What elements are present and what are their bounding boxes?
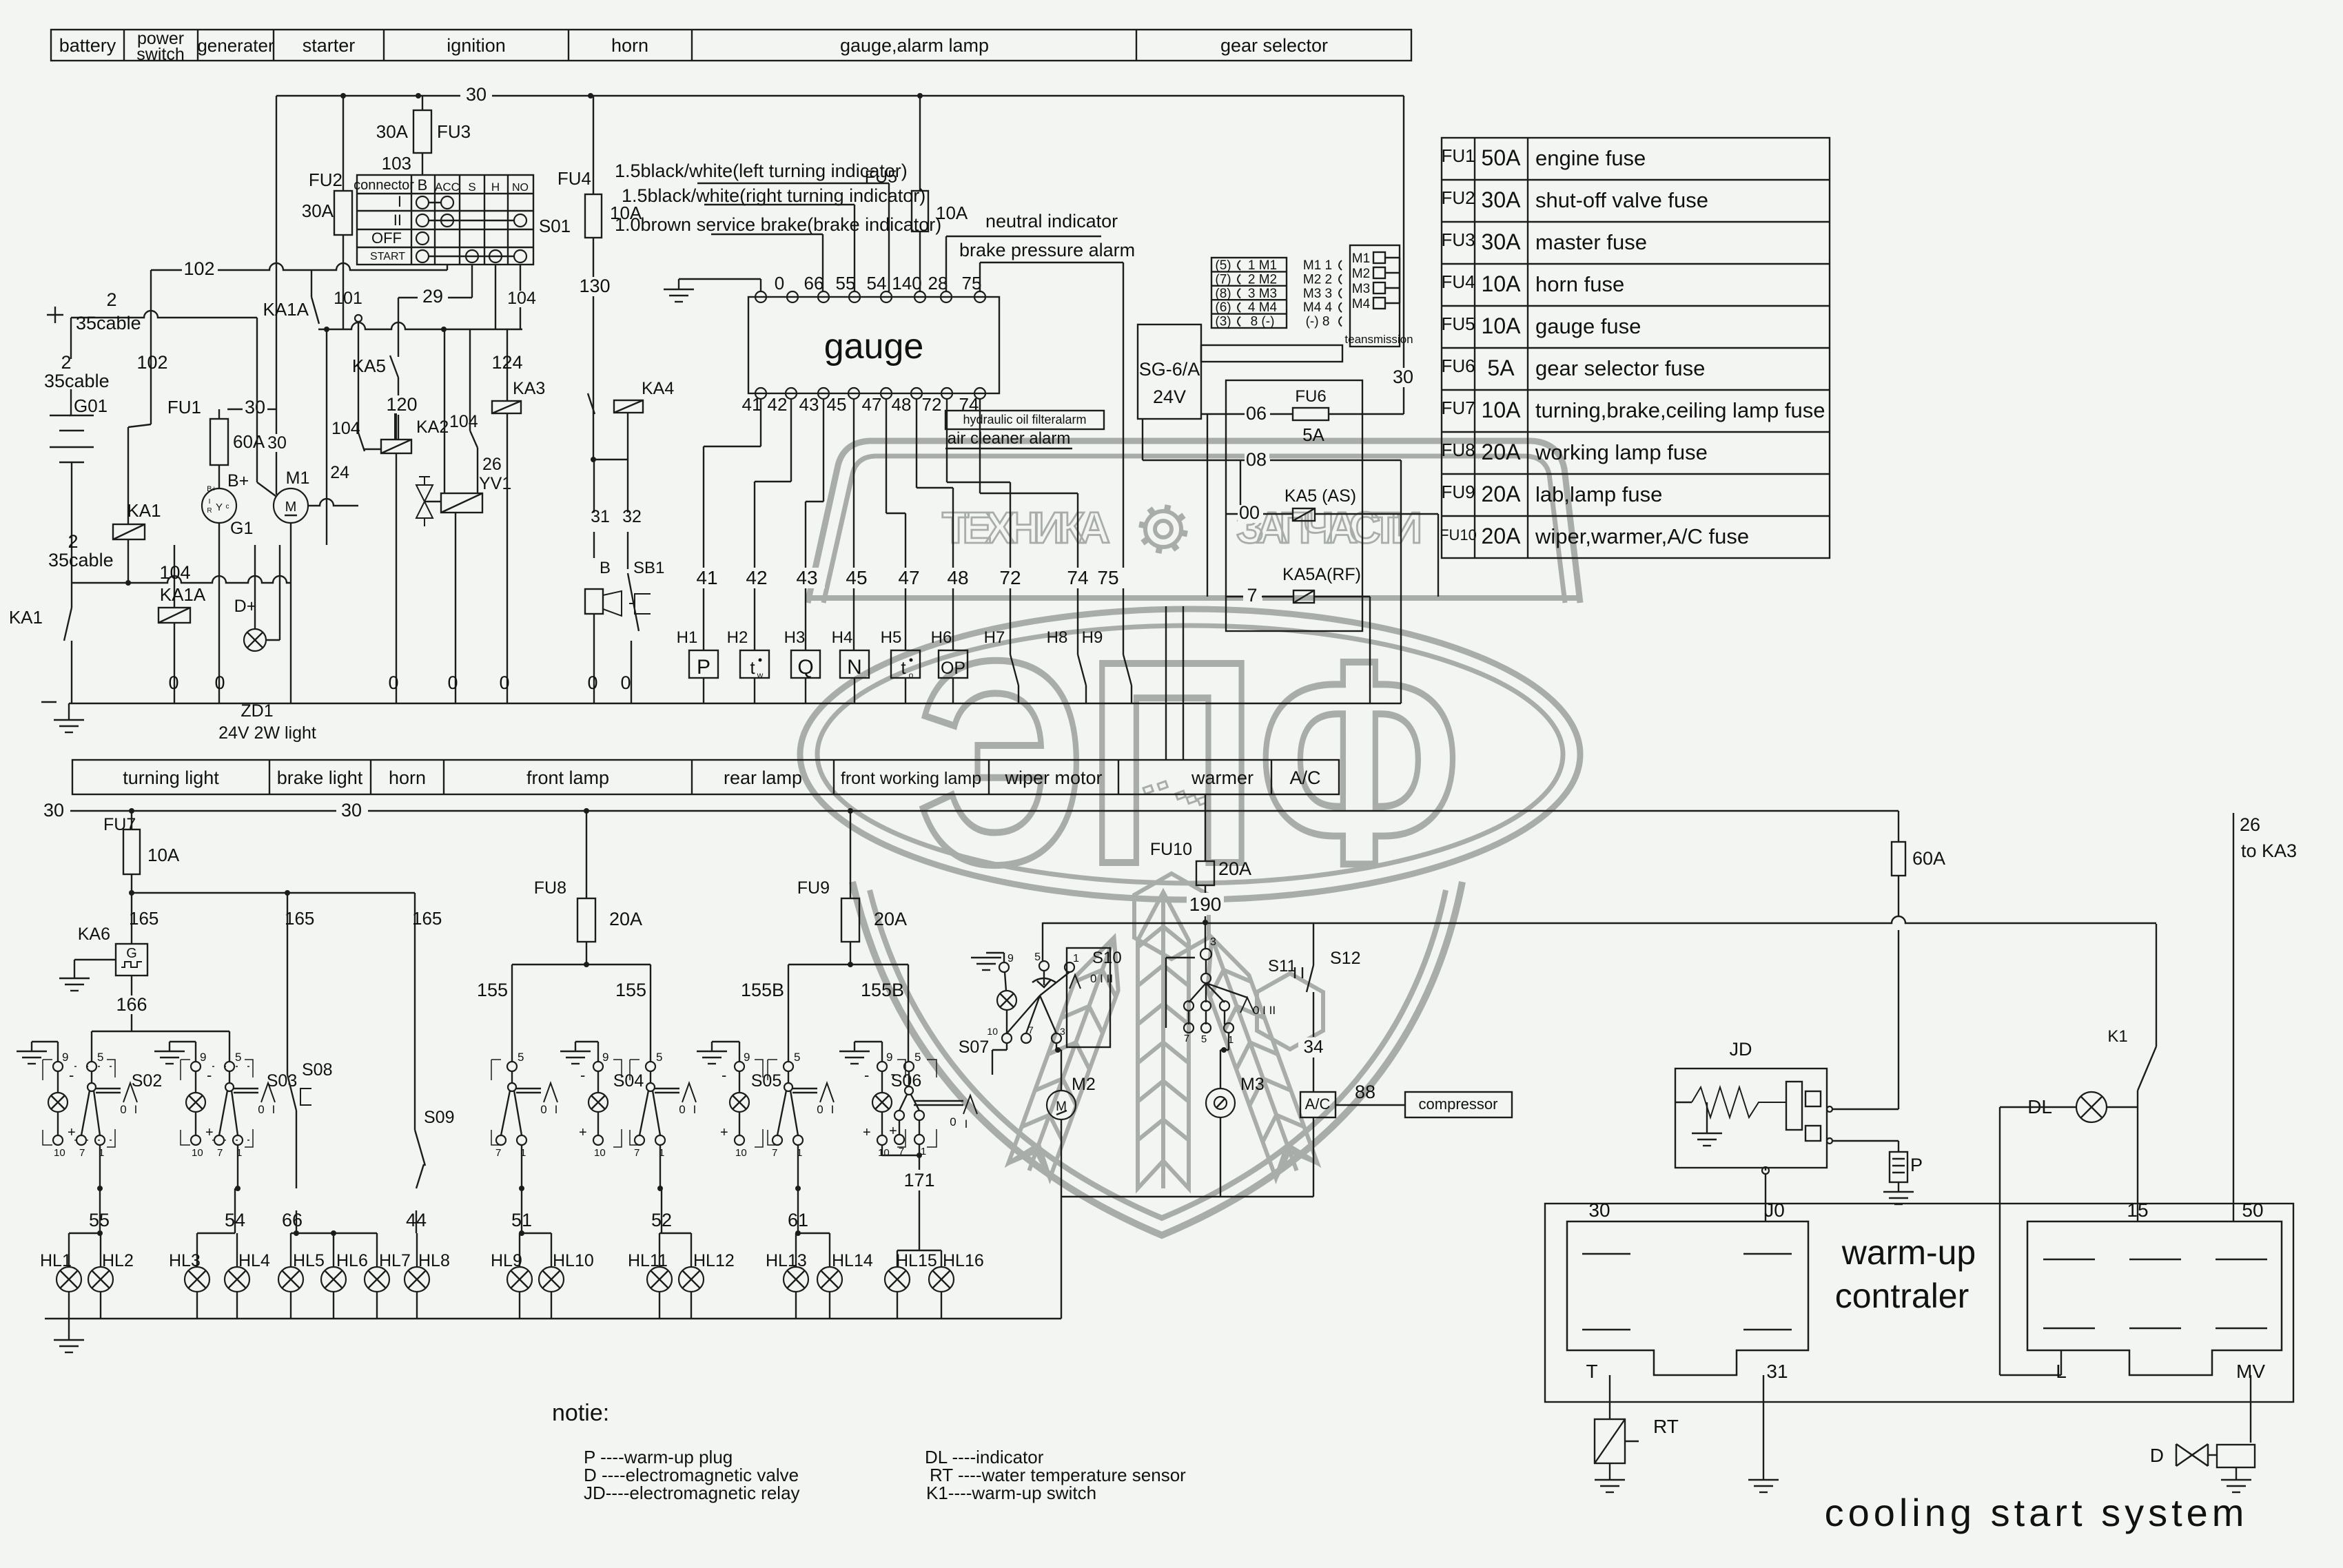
- svg-text:10: 10: [987, 1026, 998, 1037]
- svg-text:K1: K1: [2107, 1027, 2127, 1046]
- svg-text:54: 54: [867, 273, 887, 293]
- svg-text:KA4: KA4: [642, 379, 674, 398]
- svg-text:generater: generater: [197, 35, 274, 56]
- svg-text:10: 10: [192, 1147, 203, 1159]
- svg-text:neutral indicator: neutral indicator: [985, 211, 1118, 231]
- svg-text:8 (-): 8 (-): [1251, 315, 1275, 329]
- svg-text:D: D: [2150, 1445, 2164, 1466]
- svg-text:G1: G1: [230, 519, 253, 538]
- svg-text:FU10: FU10: [1440, 526, 1477, 544]
- svg-text:I: I: [831, 1103, 835, 1116]
- svg-text:+: +: [720, 1125, 728, 1140]
- svg-text:9: 9: [886, 1051, 892, 1064]
- svg-text:M2 2: M2 2: [1303, 272, 1332, 287]
- svg-text:L: L: [2056, 1361, 2067, 1382]
- svg-text:FU6: FU6: [1441, 355, 1475, 376]
- svg-text:20A: 20A: [1482, 524, 1522, 548]
- svg-text:S05: S05: [751, 1071, 781, 1091]
- svg-text:FU3: FU3: [437, 121, 471, 142]
- svg-text:31: 31: [1766, 1361, 1788, 1382]
- svg-text:front working lamp: front working lamp: [841, 769, 981, 788]
- svg-text:7: 7: [217, 1147, 223, 1159]
- svg-text:ZD1: ZD1: [241, 701, 273, 721]
- svg-text:JD: JD: [1730, 1039, 1752, 1060]
- svg-text:10: 10: [878, 1147, 890, 1159]
- svg-text:31: 31: [591, 507, 610, 526]
- svg-text:20A: 20A: [1482, 482, 1522, 506]
- svg-text:G: G: [126, 946, 137, 961]
- svg-text:H1: H1: [677, 628, 698, 647]
- svg-text:HL10: HL10: [553, 1251, 594, 1270]
- svg-text:104: 104: [449, 412, 478, 431]
- svg-text:R: R: [207, 507, 212, 515]
- svg-text:JD----electromagnetic relay: JD----electromagnetic relay: [584, 1483, 800, 1503]
- svg-text:30A: 30A: [376, 121, 409, 142]
- svg-text:0: 0: [817, 1103, 823, 1116]
- svg-text:15: 15: [2127, 1199, 2148, 1221]
- svg-text:5: 5: [235, 1051, 241, 1064]
- svg-text:HL7: HL7: [379, 1251, 411, 1270]
- svg-text:H3: H3: [784, 628, 806, 647]
- svg-text:gauge fuse: gauge fuse: [1535, 314, 1641, 338]
- svg-text:B: B: [600, 559, 611, 577]
- svg-text:hydraulic oil filteralarm: hydraulic oil filteralarm: [963, 413, 1086, 426]
- svg-text:wiper motor: wiper motor: [1004, 767, 1102, 788]
- svg-text:lab,lamp fuse: lab,lamp fuse: [1535, 482, 1662, 506]
- svg-text:120: 120: [386, 394, 417, 415]
- svg-text:06: 06: [1246, 403, 1267, 424]
- svg-text:to KA3: to KA3: [2241, 840, 2297, 861]
- svg-text:contraler: contraler: [1835, 1277, 1969, 1315]
- svg-text:M1: M1: [1352, 251, 1370, 266]
- svg-text:M3 3: M3 3: [1303, 287, 1332, 301]
- svg-text:connector: connector: [354, 178, 414, 193]
- svg-text:60A: 60A: [233, 431, 265, 452]
- svg-text:0: 0: [214, 672, 225, 693]
- svg-text:41: 41: [696, 567, 717, 588]
- svg-text:H6: H6: [931, 628, 952, 647]
- svg-text:I: I: [209, 498, 211, 506]
- svg-text:124: 124: [491, 352, 522, 373]
- svg-text:M4 4: M4 4: [1303, 300, 1333, 315]
- svg-text:H4: H4: [832, 628, 853, 647]
- svg-text:165: 165: [285, 908, 314, 929]
- svg-text:FU8: FU8: [1441, 440, 1475, 460]
- svg-text:30: 30: [341, 800, 362, 821]
- svg-text:KA5: KA5: [352, 355, 386, 376]
- svg-text:47: 47: [862, 394, 882, 415]
- svg-text:gauge,alarm lamp: gauge,alarm lamp: [840, 35, 989, 56]
- svg-text:warmer: warmer: [1191, 767, 1254, 788]
- svg-text:10A: 10A: [147, 845, 180, 865]
- svg-text:HL12: HL12: [693, 1251, 735, 1270]
- svg-text:D+: D+: [234, 597, 257, 616]
- svg-text:166: 166: [116, 994, 147, 1015]
- svg-text:0: 0: [258, 1103, 264, 1116]
- svg-text:cooling start system: cooling start system: [1825, 1491, 2249, 1534]
- svg-text:J0: J0: [1764, 1199, 1785, 1221]
- svg-text:FU7: FU7: [1441, 398, 1475, 418]
- svg-text:72: 72: [922, 394, 942, 415]
- svg-text:30: 30: [43, 800, 64, 821]
- svg-text:0: 0: [499, 672, 509, 693]
- svg-text:M4: M4: [1352, 297, 1371, 311]
- svg-text:20A: 20A: [1482, 440, 1522, 464]
- svg-text:30: 30: [1393, 367, 1413, 387]
- svg-text:FU4: FU4: [1441, 271, 1475, 292]
- svg-text:HL3: HL3: [169, 1251, 201, 1270]
- svg-text:I: I: [134, 1103, 138, 1116]
- svg-text:34: 34: [1304, 1036, 1324, 1057]
- svg-text:155: 155: [615, 980, 646, 1000]
- svg-text:29: 29: [422, 286, 443, 307]
- svg-text:0: 0: [775, 273, 784, 293]
- svg-text:t: t: [901, 657, 906, 678]
- svg-text:gear selector fuse: gear selector fuse: [1535, 356, 1705, 380]
- svg-text:2: 2: [61, 352, 71, 373]
- svg-text:0: 0: [540, 1103, 546, 1116]
- svg-text:48: 48: [947, 567, 968, 588]
- svg-text:air cleaner alarm: air cleaner alarm: [948, 429, 1071, 448]
- svg-text:H9: H9: [1082, 628, 1103, 647]
- svg-text:P: P: [697, 656, 710, 679]
- svg-text:I: I: [272, 1103, 276, 1116]
- svg-text:N: N: [847, 656, 862, 679]
- svg-text:102: 102: [136, 352, 167, 373]
- svg-text:I: I: [555, 1103, 558, 1116]
- svg-text:30: 30: [466, 84, 487, 105]
- svg-text:30: 30: [1588, 1199, 1610, 1221]
- svg-text:battery: battery: [59, 35, 116, 56]
- svg-text:1.5black/white(right turning: 1.5black/white(right turning indicator): [622, 185, 925, 206]
- svg-text:9: 9: [62, 1051, 68, 1064]
- svg-text:0: 0: [447, 672, 458, 693]
- svg-text:47: 47: [898, 567, 919, 588]
- svg-text:7: 7: [634, 1147, 640, 1159]
- svg-text:43: 43: [796, 567, 817, 588]
- svg-text:(5): (5): [1215, 258, 1231, 273]
- svg-text:FU6: FU6: [1295, 387, 1326, 406]
- svg-text:engine fuse: engine fuse: [1535, 146, 1646, 170]
- svg-text:FU1: FU1: [167, 397, 201, 417]
- svg-text:S: S: [468, 180, 475, 194]
- svg-text:5A: 5A: [1487, 355, 1515, 380]
- svg-text:+: +: [205, 1125, 214, 1140]
- svg-text:wiper,warmer,A/C fuse: wiper,warmer,A/C fuse: [1535, 524, 1749, 548]
- svg-text:M2: M2: [1072, 1075, 1096, 1094]
- svg-text:20A: 20A: [609, 909, 642, 929]
- svg-text:notie:: notie:: [552, 1400, 609, 1426]
- svg-text:0: 0: [950, 1115, 956, 1128]
- svg-text:turning,brake,ceiling lamp f: turning,brake,ceiling lamp fuse: [1535, 398, 1825, 422]
- svg-text:101: 101: [334, 289, 362, 308]
- svg-text:171: 171: [903, 1170, 934, 1190]
- svg-text:0: 0: [120, 1103, 126, 1116]
- svg-text:30A: 30A: [1482, 187, 1522, 212]
- svg-text:(-) 8: (-) 8: [1306, 315, 1330, 329]
- svg-text:88: 88: [1355, 1082, 1375, 1102]
- svg-text:0 I II: 0 I II: [1253, 1004, 1276, 1017]
- svg-text:3: 3: [1210, 936, 1216, 948]
- svg-text:0: 0: [168, 672, 178, 693]
- svg-text:5: 5: [656, 1051, 662, 1064]
- svg-text:S11: S11: [1268, 957, 1296, 976]
- svg-text:2 M2: 2 M2: [1248, 272, 1277, 287]
- svg-text:FU4: FU4: [557, 168, 591, 189]
- svg-text:32: 32: [622, 507, 642, 526]
- svg-text:+: +: [889, 1124, 897, 1139]
- svg-text:M: M: [285, 499, 297, 515]
- svg-text:S02: S02: [132, 1071, 162, 1091]
- svg-text:B+: B+: [207, 485, 216, 493]
- svg-text:45: 45: [827, 394, 847, 415]
- svg-text:HL15: HL15: [896, 1251, 937, 1270]
- svg-text:155B: 155B: [861, 980, 904, 1000]
- svg-text:M3: M3: [1240, 1075, 1265, 1094]
- svg-text:66: 66: [282, 1210, 303, 1230]
- svg-text:41: 41: [742, 394, 762, 415]
- svg-text:155B: 155B: [741, 980, 784, 1000]
- svg-text:ЗАПЧАСТИ: ЗАПЧАСТИ: [1236, 503, 1424, 553]
- svg-text:P: P: [1910, 1155, 1923, 1175]
- svg-text:-: -: [69, 1066, 74, 1084]
- svg-text:S09: S09: [424, 1108, 454, 1127]
- svg-text:+: +: [579, 1125, 587, 1140]
- svg-text:48: 48: [892, 394, 912, 415]
- svg-text:(8): (8): [1215, 287, 1231, 301]
- svg-text:A/C: A/C: [1305, 1095, 1331, 1113]
- svg-text:working lamp fuse: working lamp fuse: [1535, 440, 1708, 464]
- svg-text:A/C: A/C: [1289, 767, 1320, 788]
- svg-text:S07: S07: [959, 1038, 989, 1057]
- svg-text:9: 9: [1007, 953, 1014, 964]
- svg-text:45: 45: [846, 567, 867, 588]
- svg-text:35cable: 35cable: [48, 550, 114, 570]
- svg-text:7: 7: [772, 1147, 777, 1159]
- svg-text:165: 165: [129, 908, 158, 929]
- svg-text:FU9: FU9: [1441, 482, 1475, 502]
- svg-text:H2: H2: [727, 628, 748, 647]
- svg-text:26: 26: [482, 455, 502, 474]
- svg-text:130: 130: [579, 276, 610, 296]
- svg-text:7: 7: [495, 1147, 501, 1159]
- svg-text:H5: H5: [881, 628, 902, 647]
- svg-text:1 M1: 1 M1: [1248, 258, 1277, 273]
- svg-text:warm-up: warm-up: [1841, 1233, 1976, 1272]
- svg-text:74: 74: [1067, 567, 1088, 588]
- svg-text:75: 75: [1097, 567, 1118, 588]
- svg-text:FU9: FU9: [797, 878, 830, 898]
- svg-text:FU1: FU1: [1441, 145, 1475, 166]
- svg-text:S08: S08: [302, 1060, 332, 1080]
- svg-text:H: H: [491, 180, 500, 194]
- svg-text:9: 9: [602, 1051, 608, 1064]
- svg-text:ЭПФ: ЭПФ: [917, 601, 1461, 925]
- svg-text:I: I: [693, 1103, 697, 1116]
- svg-text:104: 104: [331, 419, 360, 438]
- svg-text:HL13: HL13: [766, 1251, 807, 1270]
- svg-text:KA1: KA1: [9, 607, 43, 628]
- svg-text:+: +: [863, 1125, 871, 1140]
- svg-text:5: 5: [518, 1051, 524, 1064]
- svg-text:KA1A: KA1A: [160, 584, 206, 605]
- svg-text:FU2: FU2: [1441, 187, 1475, 208]
- svg-text:00: 00: [1239, 502, 1260, 523]
- svg-text:1: 1: [1073, 953, 1079, 964]
- svg-text:24V: 24V: [1153, 386, 1186, 407]
- svg-text:140: 140: [892, 273, 921, 293]
- svg-text:HL16: HL16: [943, 1251, 984, 1270]
- svg-text:KA5A(RF): KA5A(RF): [1282, 565, 1361, 584]
- svg-text:H8: H8: [1047, 628, 1068, 647]
- svg-text:S01: S01: [539, 216, 571, 236]
- svg-text:horn: horn: [389, 767, 426, 788]
- svg-text:front lamp: front lamp: [526, 767, 609, 788]
- svg-text:60A: 60A: [1912, 848, 1945, 869]
- svg-text:gear selector: gear selector: [1220, 35, 1328, 56]
- svg-text:H7: H7: [984, 628, 1005, 647]
- svg-text:turning light: turning light: [123, 767, 219, 788]
- svg-text:K1----warm-up switch: K1----warm-up switch: [926, 1483, 1096, 1503]
- svg-text:T: T: [1586, 1361, 1597, 1382]
- svg-text:9: 9: [200, 1051, 206, 1064]
- svg-text:75: 75: [962, 273, 982, 293]
- svg-text:1.5black/white(left turning: 1.5black/white(left turning indicator): [615, 161, 908, 181]
- svg-text:5: 5: [1201, 1033, 1207, 1045]
- svg-text:(6): (6): [1215, 300, 1231, 315]
- svg-text:OFF: OFF: [371, 229, 402, 247]
- svg-text:I: I: [398, 193, 402, 210]
- svg-text:KA6: KA6: [78, 925, 110, 944]
- svg-text:RT: RT: [1653, 1416, 1679, 1437]
- svg-text:5: 5: [914, 1051, 921, 1064]
- svg-text:72: 72: [999, 567, 1021, 588]
- svg-text:FU10: FU10: [1150, 840, 1192, 859]
- svg-text:HL14: HL14: [832, 1251, 873, 1270]
- svg-text:9: 9: [744, 1051, 750, 1064]
- svg-text:102: 102: [183, 258, 214, 279]
- svg-text:II: II: [393, 212, 402, 229]
- svg-text:+: +: [68, 1125, 76, 1140]
- svg-text:10: 10: [735, 1147, 747, 1159]
- svg-text:24: 24: [330, 463, 349, 482]
- svg-text:B+: B+: [227, 471, 249, 491]
- svg-text:OP: OP: [941, 659, 965, 678]
- svg-text:50A: 50A: [1482, 145, 1522, 170]
- svg-text:ignition: ignition: [447, 35, 506, 56]
- svg-text:08: 08: [1246, 449, 1267, 470]
- svg-text:(7): (7): [1215, 272, 1231, 287]
- svg-text:0 I II: 0 I II: [1090, 972, 1113, 985]
- svg-text:HL2: HL2: [102, 1251, 134, 1270]
- svg-text:5: 5: [1034, 951, 1041, 963]
- svg-text:gauge: gauge: [824, 327, 924, 367]
- svg-text:M2: M2: [1352, 267, 1370, 281]
- svg-text:-: -: [207, 1066, 212, 1084]
- svg-text:M1: M1: [286, 468, 310, 488]
- svg-text:M1 1: M1 1: [1303, 258, 1332, 273]
- svg-text:5: 5: [794, 1051, 800, 1064]
- svg-text:Q: Q: [797, 656, 813, 679]
- svg-text:0: 0: [679, 1103, 685, 1116]
- svg-text:165: 165: [412, 908, 442, 929]
- svg-text:2: 2: [68, 531, 78, 552]
- svg-text:4 M4: 4 M4: [1248, 300, 1278, 315]
- svg-text:ACC: ACC: [435, 180, 460, 194]
- svg-text:t: t: [750, 657, 755, 678]
- svg-text:w: w: [757, 670, 764, 680]
- svg-text:10A: 10A: [1482, 271, 1522, 296]
- svg-text:104: 104: [507, 289, 536, 308]
- svg-text:HL5: HL5: [293, 1251, 325, 1270]
- svg-text:B: B: [418, 176, 428, 194]
- svg-text:7: 7: [79, 1147, 85, 1159]
- svg-text:10: 10: [594, 1147, 606, 1159]
- svg-text:50: 50: [2242, 1199, 2263, 1221]
- svg-text:3 M3: 3 M3: [1248, 287, 1277, 301]
- svg-text:66: 66: [804, 273, 824, 293]
- svg-text:o: o: [909, 670, 914, 680]
- svg-text:0: 0: [587, 672, 597, 693]
- svg-text:28: 28: [928, 273, 948, 293]
- svg-text:5: 5: [97, 1051, 103, 1064]
- svg-text:-: -: [864, 1066, 869, 1084]
- svg-text:NO: NO: [512, 182, 529, 194]
- svg-text:master fuse: master fuse: [1535, 230, 1647, 254]
- svg-text:c: c: [226, 503, 229, 510]
- svg-text:20A: 20A: [874, 909, 907, 929]
- svg-text:30A: 30A: [302, 200, 334, 221]
- svg-text:S03: S03: [267, 1071, 297, 1091]
- svg-text:FU8: FU8: [534, 878, 566, 898]
- svg-text:10A: 10A: [1482, 313, 1522, 338]
- svg-text:103: 103: [382, 153, 411, 174]
- svg-text:Y: Y: [216, 502, 223, 513]
- svg-text:FU5: FU5: [1441, 313, 1475, 334]
- svg-text:teansmission: teansmission: [1344, 333, 1413, 346]
- svg-text:starter: starter: [303, 35, 356, 56]
- svg-text:M3: M3: [1352, 282, 1370, 296]
- svg-text:S04: S04: [613, 1071, 644, 1091]
- svg-text:compressor: compressor: [1419, 1095, 1498, 1113]
- svg-text:I: I: [965, 1117, 968, 1131]
- svg-text:26: 26: [2240, 814, 2260, 835]
- svg-text:20A: 20A: [1218, 858, 1251, 879]
- svg-text:HL1: HL1: [40, 1251, 72, 1270]
- svg-text:SB1: SB1: [633, 559, 664, 577]
- svg-text:KA3: KA3: [513, 379, 545, 398]
- svg-text:G01: G01: [74, 395, 108, 416]
- svg-text:FU2: FU2: [309, 169, 342, 190]
- svg-text:2: 2: [106, 289, 116, 310]
- svg-text:(3): (3): [1215, 315, 1231, 329]
- svg-text:KA5 (AS): KA5 (AS): [1285, 486, 1356, 506]
- svg-text:switch: switch: [136, 45, 184, 64]
- svg-text:rear lamp: rear lamp: [724, 767, 802, 788]
- svg-text:1.0brown service brake(brake: 1.0brown service brake(brake indicator): [615, 214, 941, 235]
- svg-text:24V 2W light: 24V 2W light: [218, 723, 316, 743]
- svg-text:HL9: HL9: [491, 1251, 522, 1270]
- svg-text:KA1: KA1: [127, 500, 161, 521]
- svg-text:-: -: [722, 1066, 726, 1084]
- svg-text:10A: 10A: [1482, 398, 1522, 422]
- svg-text:30: 30: [245, 397, 265, 417]
- svg-text:0: 0: [388, 672, 398, 693]
- svg-text:HL6: HL6: [336, 1251, 368, 1270]
- svg-text:7: 7: [1247, 585, 1257, 606]
- svg-text:KA1A: KA1A: [263, 299, 309, 320]
- svg-text:3: 3: [1060, 1026, 1065, 1037]
